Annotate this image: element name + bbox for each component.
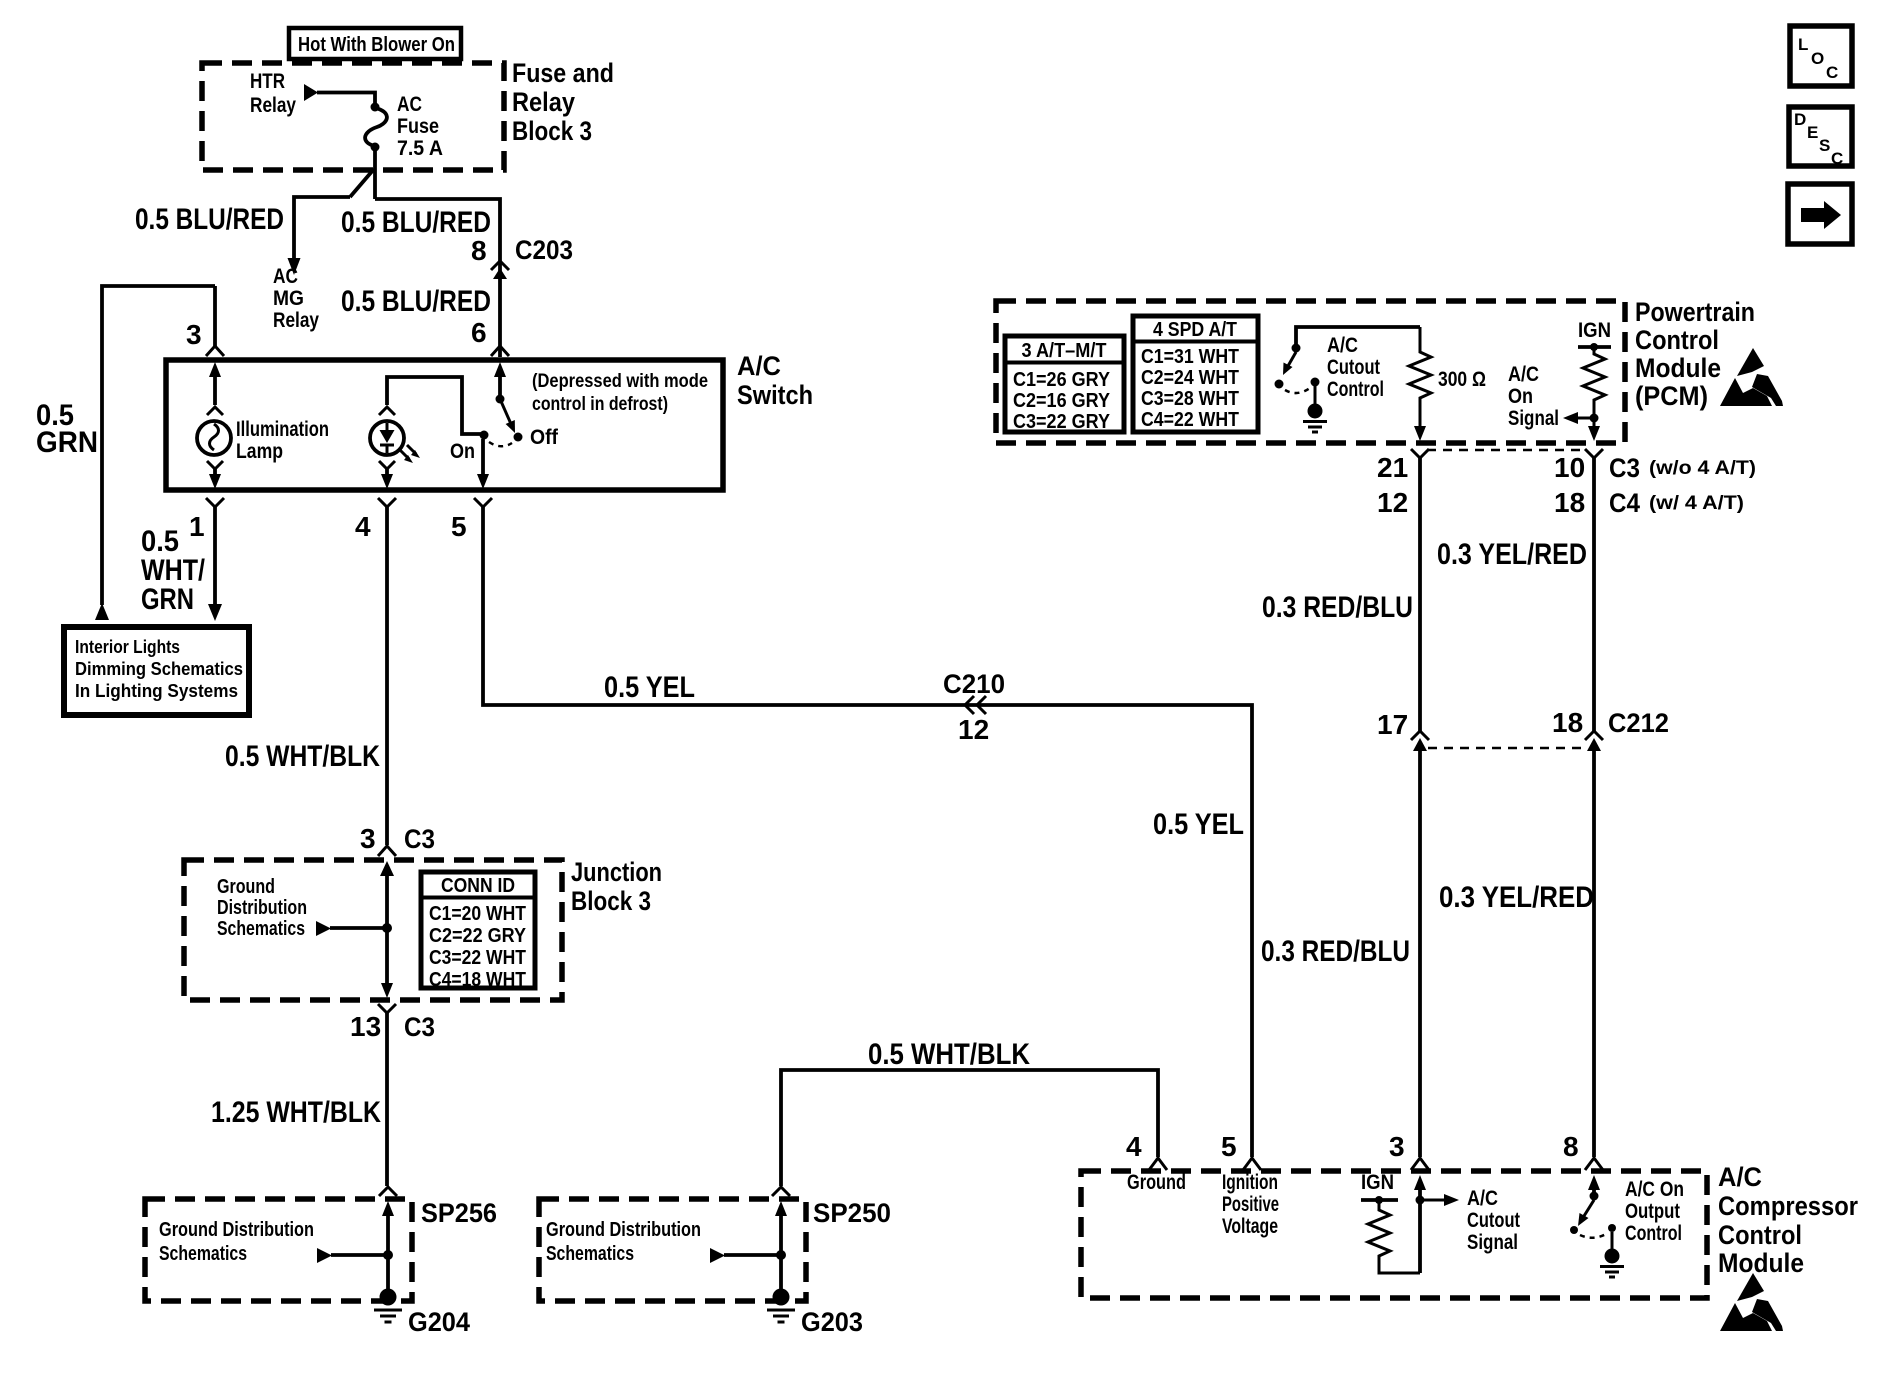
resistor R1 300 ohm (zigzag) (1409, 327, 1431, 429)
svg-text:C3=28 WHT: C3=28 WHT (1141, 388, 1239, 410)
HTR Relay feed triangle (304, 84, 318, 101)
reference box "Interior Lights Dimming Schematics in Lighting Systems" (64, 627, 249, 715)
svg-text:0.5 WHT/BLK: 0.5 WHT/BLK (225, 740, 380, 773)
svg-text:12: 12 (958, 714, 989, 745)
svg-text:Dimming Schematics: Dimming Schematics (75, 659, 243, 679)
svg-text:D: D (1794, 110, 1806, 129)
splice SP250 chevron (772, 1187, 790, 1196)
svg-text:GRN: GRN (36, 426, 98, 459)
svg-text:C212: C212 (1608, 708, 1669, 738)
svg-text:SP250: SP250 (813, 1198, 891, 1228)
svg-text:C3: C3 (404, 1012, 435, 1042)
note "(Depressed with mode control in defrost)" (532, 371, 708, 415)
svg-text:Junction: Junction (571, 857, 662, 887)
label "AC MG Relay" (273, 265, 319, 332)
junction dot (left box) (383, 1250, 393, 1260)
module box: Powertrain Control Module (dashed) (996, 301, 1625, 443)
cutout switch ground stem and case-ground symbol (1303, 386, 1327, 432)
svg-text:AC: AC (397, 93, 422, 116)
wire pin1 down to Interior Lights box (213, 507, 217, 604)
label "Ground Distribution Schematics" (middle box) (546, 1219, 701, 1265)
pin 21 chevron (1411, 449, 1429, 458)
lamp wire down with arrow at box edge (209, 467, 221, 489)
svg-text:In Lighting Systems: In Lighting Systems (75, 681, 238, 701)
wire from SP250 up and right to compressor pin 4 (781, 1070, 1158, 1186)
connector label C3 (w/o 4 A/T) (1609, 453, 1756, 483)
wire pin21 to C212 pin17 (1418, 457, 1422, 732)
wire from On contact down with arrow at box edge (477, 439, 489, 489)
svg-text:IGN: IGN (1361, 1171, 1394, 1194)
LED indicator (circle with diode) (370, 421, 404, 455)
wire horizontal left branch (294, 197, 350, 258)
module box: A/C Compressor Control Module (dashed) (1081, 1171, 1707, 1298)
svg-text:A/C: A/C (1508, 363, 1539, 386)
pin 4 chevron (1149, 1158, 1167, 1170)
table "4 SPD A/T" (1133, 316, 1258, 432)
svg-text:Voltage: Voltage (1222, 1215, 1278, 1238)
svg-text:10: 10 (1554, 452, 1585, 483)
ground G204 symbol (374, 1289, 402, 1323)
connector C210 symbol (double chevron) (965, 696, 986, 714)
svg-text:C1=20 WHT: C1=20 WHT (429, 903, 526, 925)
svg-text:C3=22 GRY: C3=22 GRY (1013, 411, 1111, 433)
cutout switch pivot dot (1292, 344, 1301, 353)
wire label 0.5 GRN (36, 399, 98, 459)
svg-text:17: 17 (1377, 709, 1408, 740)
wire down with arrow at PCM edge (pin 10 wire) (1588, 422, 1600, 441)
connector C212 symbol pin 18 (1585, 731, 1603, 751)
svg-text:A/C On: A/C On (1625, 1178, 1684, 1201)
pin 8 wire inside module with up arrow (1588, 1175, 1600, 1193)
svg-text:MG: MG (273, 287, 304, 310)
junction dot (middle box) (776, 1250, 786, 1260)
label "A/C Compressor Control Module" (1718, 1162, 1858, 1278)
lamp top chevron (207, 407, 223, 415)
LED bottom chevron (379, 461, 395, 469)
switch S1: pivot dot and wire up to pin 6 (494, 362, 506, 404)
wire into box with arrow up (775, 1201, 787, 1290)
A/C On output switch blade with arrowhead (1578, 1200, 1594, 1226)
svg-text:C3: C3 (404, 824, 435, 854)
svg-text:8: 8 (1563, 1131, 1579, 1162)
svg-text:C2=22 GRY: C2=22 GRY (429, 925, 527, 947)
pointer triangle (middle box) (710, 1248, 781, 1263)
LED wire down with arrow at box edge (381, 467, 393, 489)
svg-text:C4=22 WHT: C4=22 WHT (1141, 409, 1239, 431)
svg-text:0.3 RED/BLU: 0.3 RED/BLU (1262, 591, 1413, 624)
corner icon: LOC box (1790, 26, 1852, 86)
svg-text:21: 21 (1377, 452, 1408, 483)
svg-text:5: 5 (1221, 1131, 1237, 1162)
svg-text:300 Ω: 300 Ω (1438, 368, 1486, 391)
svg-text:(Depressed with mode: (Depressed with mode (532, 371, 708, 392)
cutout switch open contact dot (1275, 380, 1284, 389)
A/C cutout control switch: top wire (1296, 327, 1420, 345)
svg-text:IGN: IGN (1578, 319, 1611, 342)
CONN ID table (421, 872, 535, 991)
svg-text:C2=24 WHT: C2=24 WHT (1141, 367, 1239, 389)
svg-text:Switch: Switch (737, 380, 813, 410)
svg-text:HTR: HTR (250, 70, 285, 93)
svg-text:A/C: A/C (1718, 1162, 1762, 1192)
svg-text:Signal: Signal (1467, 1231, 1518, 1254)
svg-text:Compressor: Compressor (1718, 1191, 1858, 1221)
label "A/C On Signal" (1508, 363, 1559, 430)
label box "Hot With Blower On" (289, 28, 461, 59)
reference box: Ground Distribution Schematics (middle, dashed) (539, 1199, 806, 1301)
pin 4 chevron below box (378, 498, 396, 507)
svg-text:7.5 A: 7.5 A (397, 137, 443, 160)
wire C212 pin17 down to compressor pin 3 (1418, 751, 1422, 1157)
svg-text:Relay: Relay (273, 309, 319, 332)
resistor R3 (zigzag, compressor) (1368, 1200, 1420, 1273)
svg-text:(PCM): (PCM) (1635, 381, 1708, 411)
svg-text:S: S (1819, 136, 1830, 155)
svg-text:0.5 YEL: 0.5 YEL (1153, 808, 1244, 841)
ESD warning symbol (PCM) (1720, 348, 1783, 406)
svg-text:0.5 WHT/BLK: 0.5 WHT/BLK (868, 1038, 1030, 1071)
label "Junction Block 3" (571, 857, 662, 916)
A/C On output switch open contact dot (1570, 1226, 1578, 1234)
switch S1: dashed travel arc (489, 442, 512, 446)
svg-text:A/C: A/C (1467, 1187, 1498, 1210)
svg-text:(w/ 4 A/T): (w/ 4 A/T) (1649, 493, 1744, 514)
corner icon: DESC box (1789, 107, 1852, 168)
splice SP256 chevron (379, 1187, 397, 1196)
svg-text:Module: Module (1718, 1248, 1804, 1278)
svg-text:Ground Distribution: Ground Distribution (159, 1219, 314, 1241)
svg-text:C: C (1826, 63, 1838, 82)
wire from HTR relay to fuse (317, 93, 375, 107)
connector label C4 (w/ 4 A/T) (1609, 488, 1744, 518)
wire right branch to C203 (375, 199, 500, 357)
svg-text:O: O (1811, 49, 1824, 68)
svg-text:C4: C4 (1609, 488, 1640, 518)
svg-text:AC: AC (273, 265, 298, 288)
reference box: Ground Distribution Schematics (left, dashed) (145, 1199, 412, 1301)
label "Ground Distribution Schematics" (junction block) (217, 876, 307, 940)
svg-text:6: 6 (471, 317, 487, 348)
svg-text:A/C: A/C (1327, 334, 1358, 357)
corner icon: arrow box (1788, 184, 1852, 244)
pin 3 wire inside module with up arrow (1414, 1175, 1426, 1273)
arrow down into Interior Lights box (208, 604, 222, 621)
pin 5 chevron (1243, 1158, 1261, 1170)
svg-text:Block 3: Block 3 (512, 116, 592, 146)
svg-text:0.5 BLU/RED: 0.5 BLU/RED (341, 285, 491, 318)
A/C On output switch: pivot dot (1590, 1192, 1599, 1201)
svg-text:3 A/T–M/T: 3 A/T–M/T (1022, 340, 1107, 362)
wire branch diagonal to left (350, 169, 374, 197)
ESD warning symbol (compressor module) (1720, 1273, 1783, 1331)
cutout switch fixed contact dot (1311, 378, 1320, 387)
svg-text:4: 4 (355, 511, 371, 542)
svg-text:Control: Control (1718, 1220, 1802, 1250)
label "AC Fuse 7.5 A" (397, 93, 443, 160)
svg-text:Schematics: Schematics (546, 1243, 634, 1265)
junction dot on wire (382, 923, 392, 933)
connector C3 symbol at junction box top (378, 846, 396, 876)
svg-text:0.3 YEL/RED: 0.3 YEL/RED (1439, 881, 1594, 914)
svg-text:C3=22 WHT: C3=22 WHT (429, 947, 526, 969)
svg-text:1: 1 (189, 511, 205, 542)
pointer triangle to ground distribution (316, 921, 387, 936)
svg-text:Ignition: Ignition (1222, 1171, 1278, 1194)
svg-text:Fuse: Fuse (397, 115, 439, 138)
pin 13 chevron below junction box (378, 1004, 396, 1013)
arrow (pointing up) above Interior Lights box (95, 603, 109, 620)
label "Ignition Positive Voltage" (1222, 1171, 1279, 1238)
wire through junction block with arrow down (381, 876, 393, 998)
wire from interior lights branch: top horizontal (102, 286, 215, 605)
LED light rays (two arrows) (400, 445, 420, 463)
svg-text:SP256: SP256 (421, 1198, 497, 1228)
module box: Junction Block 3 (dashed) (184, 860, 562, 1000)
lamp bottom chevron (207, 461, 223, 469)
wire 0.5 YEL from switch pin5 to C210 and down to compressor pin 5 (483, 507, 1252, 1157)
svg-text:5: 5 (451, 511, 467, 542)
wire down to switch pin 3 (213, 286, 217, 346)
svg-text:Fuse and: Fuse and (512, 58, 614, 88)
svg-text:Module: Module (1635, 353, 1721, 383)
LED top wire from On contact (387, 377, 481, 434)
svg-text:C: C (1831, 149, 1843, 168)
svg-text:GRN: GRN (141, 583, 194, 616)
A/C On output switch fixed contact dot (1608, 1224, 1616, 1232)
label "Powertrain Control Module (PCM)" (1635, 297, 1755, 411)
svg-text:Ground Distribution: Ground Distribution (546, 1219, 701, 1241)
svg-text:4: 4 (1126, 1131, 1142, 1162)
junction dot on A/C On Signal wire (1590, 414, 1599, 423)
svg-text:Interior Lights: Interior Lights (75, 637, 180, 657)
PCM connector row: thin dashed line (1427, 449, 1587, 452)
svg-text:1.25 WHT/BLK: 1.25 WHT/BLK (211, 1096, 381, 1129)
switch S1: blade to Off contact (500, 399, 515, 433)
svg-text:C203: C203 (515, 235, 573, 265)
svg-text:A/C: A/C (737, 351, 781, 381)
IGN feed (PCM) (1578, 319, 1611, 351)
svg-text:3: 3 (1389, 1131, 1405, 1162)
svg-text:Off: Off (530, 426, 559, 449)
svg-text:Schematics: Schematics (159, 1243, 247, 1265)
wire from switch pin 4 down to junction block (385, 507, 389, 845)
svg-text:0.5 BLU/RED: 0.5 BLU/RED (135, 203, 284, 236)
pin 1 chevron below box (206, 498, 224, 507)
label "HTR Relay" (250, 70, 296, 117)
connector C203 symbol on wire (491, 261, 509, 279)
A/C Switch box (166, 360, 723, 490)
arrow to AC MG Relay (288, 258, 301, 275)
svg-text:On: On (450, 440, 475, 463)
pointer triangle (left box) (317, 1248, 388, 1263)
fuse F1 AC Fuse 7.5A (S-curve with end dots) (365, 103, 387, 152)
svg-text:control in defrost): control in defrost) (532, 394, 668, 415)
svg-text:8: 8 (471, 235, 487, 266)
label "Fuse and Relay Block 3" (512, 58, 614, 146)
svg-text:Relay: Relay (512, 87, 575, 117)
svg-text:Distribution: Distribution (217, 897, 307, 919)
svg-text:3: 3 (360, 823, 376, 854)
junction dot on pin 3 wire (1416, 1196, 1425, 1205)
svg-text:Relay: Relay (250, 94, 296, 117)
svg-text:13: 13 (350, 1011, 381, 1042)
cutout switch dashed travel arc (1285, 388, 1310, 393)
svg-text:4 SPD A/T: 4 SPD A/T (1153, 319, 1237, 341)
svg-text:L: L (1798, 35, 1808, 54)
svg-text:G204: G204 (408, 1307, 470, 1337)
pin 8 chevron (1585, 1158, 1603, 1170)
wire label 0.5 WHT/GRN (141, 525, 206, 616)
svg-text:On: On (1508, 385, 1533, 408)
svg-text:18: 18 (1552, 707, 1583, 738)
svg-text:0.3 YEL/RED: 0.3 YEL/RED (1437, 538, 1587, 571)
svg-text:C210: C210 (943, 669, 1005, 699)
wire into box with arrow up (382, 1201, 394, 1290)
svg-text:Schematics: Schematics (217, 918, 305, 940)
label "Illumination Lamp" (236, 418, 329, 463)
arrow pointing right to A/C Cutout Signal (1420, 1194, 1459, 1206)
wire below fuse (373, 150, 377, 199)
LED top chevron (379, 407, 395, 415)
arrow pointing left to Signal label (1563, 412, 1594, 424)
pin 3 chevron (1411, 1158, 1429, 1170)
svg-text:Control: Control (1625, 1222, 1682, 1245)
resistor R2 (zigzag, IGN) (1583, 347, 1605, 414)
label "A/C On Output Control" (1625, 1178, 1684, 1245)
svg-text:(w/o 4 A/T): (w/o 4 A/T) (1649, 458, 1756, 479)
svg-text:C1=26 GRY: C1=26 GRY (1013, 369, 1111, 391)
svg-text:C4=18 WHT: C4=18 WHT (429, 969, 526, 991)
svg-text:Control: Control (1635, 325, 1719, 355)
arrow down at PCM edge (pin 21 wire) (1414, 426, 1426, 441)
svg-text:Cutout: Cutout (1467, 1209, 1520, 1232)
illumination lamp (circle with filament) (197, 421, 231, 455)
table "3 A/T-M/T" (1005, 336, 1124, 433)
lamp branch: arrow up to pin 3 (209, 362, 221, 405)
A/C On output switch dashed travel arc (1580, 1234, 1606, 1238)
svg-text:C2=16 GRY: C2=16 GRY (1013, 390, 1111, 412)
C212 thin dashed connector line (1428, 747, 1586, 750)
svg-text:Hot With Blower On: Hot With Blower On (298, 34, 455, 56)
svg-text:G203: G203 (801, 1307, 863, 1337)
switch S1: On contact dot (480, 431, 489, 440)
pin 6 chevron at switch box edge (491, 346, 509, 356)
svg-text:C3: C3 (1609, 453, 1640, 483)
svg-text:Lamp: Lamp (236, 440, 283, 463)
svg-text:Block 3: Block 3 (571, 886, 651, 916)
svg-text:Cutout: Cutout (1327, 356, 1380, 379)
svg-text:Illumination: Illumination (236, 418, 329, 441)
connector C212 symbol pin 17 (1411, 731, 1429, 751)
svg-text:12: 12 (1377, 487, 1408, 518)
svg-text:Positive: Positive (1222, 1193, 1279, 1216)
svg-text:C1=31 WHT: C1=31 WHT (1141, 346, 1239, 368)
svg-text:0.5 BLU/RED: 0.5 BLU/RED (341, 206, 491, 239)
svg-text:Powertrain: Powertrain (1635, 297, 1755, 327)
svg-text:Signal: Signal (1508, 407, 1559, 430)
label "Ground Distribution Schematics" (left box) (159, 1219, 314, 1265)
svg-text:0.5 YEL: 0.5 YEL (604, 671, 695, 704)
svg-text:18: 18 (1554, 487, 1585, 518)
svg-text:Control: Control (1327, 378, 1384, 401)
svg-text:0.3 RED/BLU: 0.3 RED/BLU (1261, 935, 1410, 968)
pin 10 chevron (1585, 449, 1603, 458)
label "A/C Switch" (737, 351, 813, 410)
wire pin10 to C212 pin18 (1592, 457, 1596, 732)
cutout switch blade with arrowhead (1283, 352, 1296, 375)
label "A/C Cutout Signal" (1467, 1187, 1520, 1254)
wire down to SP256 (385, 1013, 389, 1186)
svg-text:Ground: Ground (217, 876, 275, 898)
output switch ground stem and case-ground symbol (1600, 1232, 1624, 1277)
IGN feed (compressor module) (1361, 1171, 1398, 1204)
svg-text:E: E (1807, 123, 1818, 142)
wire C212 pin18 down to compressor pin 8 (1592, 751, 1596, 1157)
switch S1: Off contact dot (514, 433, 523, 442)
module box: Fuse and Relay Block 3 (dashed) (202, 63, 504, 170)
label "A/C Cutout Control" (1327, 334, 1384, 401)
svg-text:3: 3 (186, 319, 202, 350)
svg-text:CONN ID: CONN ID (441, 875, 515, 897)
pin 3 chevron at switch box edge (206, 346, 224, 356)
ground G203 symbol (767, 1289, 795, 1323)
pin 5 chevron below box (474, 498, 492, 507)
svg-text:Output: Output (1625, 1200, 1680, 1223)
svg-text:Ground: Ground (1127, 1171, 1186, 1194)
